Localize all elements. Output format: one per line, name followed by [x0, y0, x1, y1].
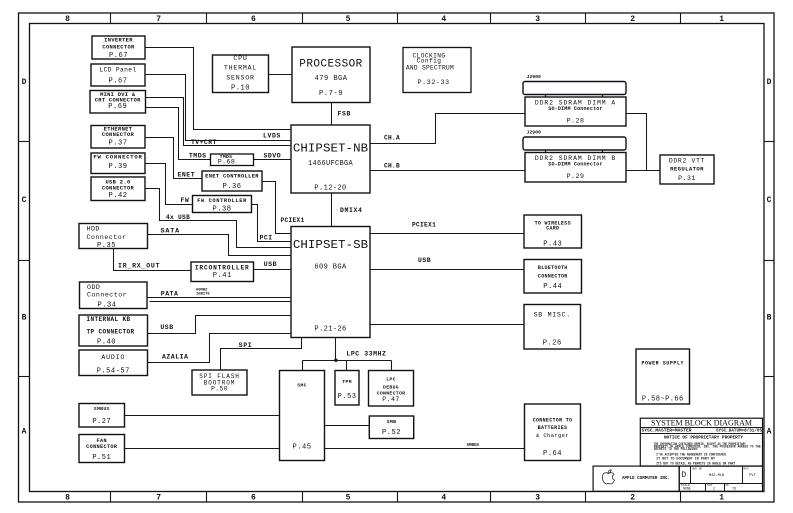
svg-text:LCD Panel: LCD Panel [99, 67, 136, 74]
svg-text:P.58~P.66: P.58~P.66 [642, 395, 684, 403]
svg-text:CHIPSET-NB: CHIPSET-NB [293, 142, 368, 156]
svg-text:M42-MLB: M42-MLB [709, 474, 725, 478]
svg-text:HDD: HDD [87, 226, 100, 233]
svg-text:P.7-9: P.7-9 [319, 90, 343, 98]
svg-text:PVT: PVT [749, 474, 756, 478]
svg-text:LPC: LPC [386, 377, 396, 383]
svg-text:D: D [682, 472, 687, 480]
svg-text:P.42: P.42 [108, 192, 127, 200]
svg-text:SO-DIMM Connector: SO-DIMM Connector [548, 106, 602, 112]
svg-text:NONE: NONE [683, 487, 691, 491]
svg-text:16BIT6: 16BIT6 [196, 293, 210, 297]
svg-text:SECRETS TO THE FOLLOWING:: SECRETS TO THE FOLLOWING: [654, 447, 699, 451]
svg-text:609 BGA: 609 BGA [314, 263, 347, 271]
svg-text:7: 7 [156, 15, 161, 24]
svg-text:6: 6 [251, 493, 256, 502]
svg-text:P.53: P.53 [337, 393, 356, 401]
svg-text:1466UFCBGA: 1466UFCBGA [308, 160, 354, 168]
svg-text:D: D [22, 78, 27, 87]
svg-text:P.64: P.64 [543, 450, 562, 458]
svg-text:P.51: P.51 [92, 454, 111, 462]
svg-text:IR_RX_OUT: IR_RX_OUT [118, 263, 160, 270]
svg-text:Connector: Connector [87, 234, 127, 241]
svg-text:J2900: J2900 [527, 74, 542, 80]
svg-text:8: 8 [65, 15, 70, 24]
svg-text:3: 3 [535, 493, 540, 502]
svg-text:Config: Config [417, 58, 442, 65]
svg-text:P.50: P.50 [211, 386, 228, 393]
svg-text:P.32-33: P.32-33 [417, 79, 449, 87]
svg-text:INTERNAL KB: INTERNAL KB [87, 316, 131, 323]
svg-text:4: 4 [441, 493, 446, 502]
svg-text:DEBUG: DEBUG [383, 385, 399, 391]
svg-text:P.37: P.37 [108, 140, 127, 148]
svg-text:CHIPSET-SB: CHIPSET-SB [293, 238, 368, 252]
svg-text:FW CONTROLLER: FW CONTROLLER [197, 198, 247, 204]
svg-text:SO-DIMM Connector: SO-DIMM Connector [548, 161, 602, 167]
svg-text:CH.B: CH.B [384, 162, 400, 169]
svg-text:1: 1 [719, 15, 724, 24]
svg-text:PCIEX1: PCIEX1 [281, 217, 305, 224]
svg-text:Connector: Connector [87, 292, 127, 299]
svg-text:PROCESSOR: PROCESSOR [299, 59, 362, 71]
svg-text:FSB: FSB [338, 111, 352, 118]
svg-text:DWG NO: DWG NO [692, 467, 702, 470]
svg-text:P.28: P.28 [567, 118, 585, 125]
svg-text:5: 5 [346, 493, 351, 502]
svg-text:2: 2 [630, 15, 635, 24]
svg-text:7: 7 [156, 493, 161, 502]
svg-text:P.45: P.45 [292, 444, 311, 452]
svg-text:SHT: SHT [707, 484, 713, 487]
svg-text:P.31: P.31 [678, 175, 696, 182]
svg-text:2: 2 [713, 487, 715, 491]
svg-text:AUDIO: AUDIO [101, 354, 125, 361]
svg-text:P.54-57: P.54-57 [97, 367, 130, 375]
svg-text:C: C [767, 196, 772, 205]
svg-text:P.34: P.34 [98, 301, 117, 309]
svg-text:LPC 33MHZ: LPC 33MHZ [346, 351, 386, 358]
svg-text:POWER SUPPLY: POWER SUPPLY [641, 360, 684, 366]
svg-text:NOTICE OF PROPRIETARY PROPERTY: NOTICE OF PROPRIETARY PROPERTY [664, 435, 743, 440]
svg-text:ENET: ENET [178, 172, 196, 179]
svg-text:PATA: PATA [161, 291, 179, 298]
svg-text:P.41: P.41 [213, 272, 232, 280]
svg-text:P.29: P.29 [567, 173, 585, 180]
svg-text:SATA: SATA [161, 228, 181, 236]
svg-text:SMC: SMC [297, 383, 307, 389]
svg-text:SMBUS: SMBUS [467, 444, 480, 448]
svg-text:TMDS: TMDS [189, 152, 207, 159]
svg-text:P.67: P.67 [108, 77, 127, 85]
svg-text:FW CONNECTOR: FW CONNECTOR [93, 153, 142, 160]
svg-text:CONNECTOR: CONNECTOR [102, 185, 135, 191]
svg-text:P.26: P.26 [543, 339, 562, 347]
svg-text:AZALIA: AZALIA [162, 354, 188, 361]
svg-text:A: A [22, 428, 27, 437]
svg-text:USB: USB [264, 261, 277, 268]
svg-text:OF: OF [726, 484, 730, 487]
svg-text:P.21-26: P.21-26 [314, 325, 346, 333]
svg-text:BATTERIES: BATTERIES [538, 425, 568, 431]
svg-text:DMIX4: DMIX4 [340, 207, 363, 214]
svg-text:CONNECTOR: CONNECTOR [102, 132, 135, 138]
svg-text:REGULATOR: REGULATOR [670, 165, 704, 172]
svg-text:SMB: SMB [387, 419, 397, 425]
svg-text:USB: USB [418, 257, 431, 264]
svg-text:P.10: P.10 [231, 85, 250, 93]
svg-text:IT NOT TO DOCUMENT IN PART BY: IT NOT TO DOCUMENT IN PART BY [656, 457, 715, 461]
svg-text:479 BGA: 479 BGA [315, 75, 348, 83]
svg-text:4x USB: 4x USB [166, 214, 190, 221]
svg-text:SMBUS: SMBUS [94, 406, 110, 412]
svg-text:C: C [22, 196, 27, 205]
svg-text:P.67: P.67 [109, 52, 128, 60]
svg-text:CONNECTOR: CONNECTOR [538, 274, 568, 280]
svg-text:3: 3 [535, 15, 540, 24]
svg-text:P.68: P.68 [218, 159, 235, 166]
svg-text:IRCONTROLLER: IRCONTROLLER [195, 264, 250, 271]
svg-text:INVERTER: INVERTER [104, 38, 133, 44]
svg-text:CONNECTOR: CONNECTOR [102, 45, 135, 51]
svg-text:SPI: SPI [239, 342, 253, 349]
svg-text:P.43: P.43 [543, 240, 562, 248]
svg-text:DDR2 VTT: DDR2 VTT [669, 158, 705, 165]
svg-text:76: 76 [732, 487, 736, 491]
svg-text:THERMAL: THERMAL [224, 65, 257, 72]
svg-text:SDVO: SDVO [264, 152, 282, 159]
svg-text:& Charger: & Charger [536, 432, 569, 439]
svg-text:4: 4 [441, 15, 446, 24]
svg-text:BLUETOOTH: BLUETOOTH [538, 265, 568, 271]
svg-text:CARD: CARD [546, 225, 559, 231]
svg-text:CPU: CPU [233, 55, 247, 62]
svg-text:REV: REV [744, 467, 749, 470]
svg-text:P.39: P.39 [108, 163, 127, 171]
svg-text:TP CONNECTOR: TP CONNECTOR [87, 329, 135, 336]
svg-text:A: A [767, 428, 772, 437]
svg-text:SENSOR: SENSOR [226, 75, 255, 82]
svg-text:SYSTEM BLOCK DIAGRAM: SYSTEM BLOCK DIAGRAM [651, 418, 753, 427]
svg-text:SYSC_DATUM=8/31/05: SYSC_DATUM=8/31/05 [716, 429, 762, 434]
svg-text:P.36: P.36 [222, 183, 241, 191]
svg-text:5: 5 [346, 15, 351, 24]
svg-text:TV+CRT: TV+CRT [191, 139, 217, 146]
svg-text:CONNECTOR TO: CONNECTOR TO [533, 418, 573, 424]
svg-text:P.40: P.40 [97, 339, 116, 347]
svg-text:APPLE COMPUTER INC.: APPLE COMPUTER INC. [622, 476, 670, 481]
svg-text:P.12-20: P.12-20 [314, 184, 346, 192]
svg-text:ITS NOT TO DETAIL AS PERMITS I: ITS NOT TO DETAIL AS PERMITS IN WHOLE OR… [656, 461, 735, 465]
svg-text:J2900: J2900 [527, 130, 542, 136]
svg-text:AND SPECTRUM: AND SPECTRUM [406, 65, 454, 72]
svg-text:PCI: PCI [260, 235, 273, 242]
svg-text:CH.A: CH.A [384, 135, 400, 142]
svg-text:P.44: P.44 [543, 283, 562, 291]
svg-text:2: 2 [630, 493, 635, 502]
svg-text:P.69: P.69 [108, 103, 127, 111]
svg-text:P.27: P.27 [92, 418, 111, 426]
svg-text:USB: USB [160, 324, 173, 331]
svg-text:SB MISC.: SB MISC. [534, 312, 571, 319]
svg-text:P.47: P.47 [382, 396, 399, 403]
svg-text:B: B [22, 314, 27, 323]
svg-text:8: 8 [65, 493, 70, 502]
svg-text:PCIEX1: PCIEX1 [412, 222, 436, 229]
svg-text:LVDS: LVDS [263, 133, 281, 140]
svg-text:P.38: P.38 [212, 205, 231, 213]
svg-text:D: D [767, 78, 772, 87]
svg-text:6: 6 [251, 15, 256, 24]
svg-text:P.52: P.52 [382, 429, 401, 437]
svg-text:CONNECTOR: CONNECTOR [86, 444, 118, 450]
svg-text:ODD: ODD [87, 284, 100, 291]
svg-text:TPM: TPM [342, 379, 352, 385]
svg-text:1: 1 [719, 493, 724, 502]
svg-text:ENET CONTROLLER: ENET CONTROLLER [205, 174, 259, 180]
svg-text:FW: FW [181, 197, 190, 204]
svg-text:B: B [767, 314, 772, 323]
